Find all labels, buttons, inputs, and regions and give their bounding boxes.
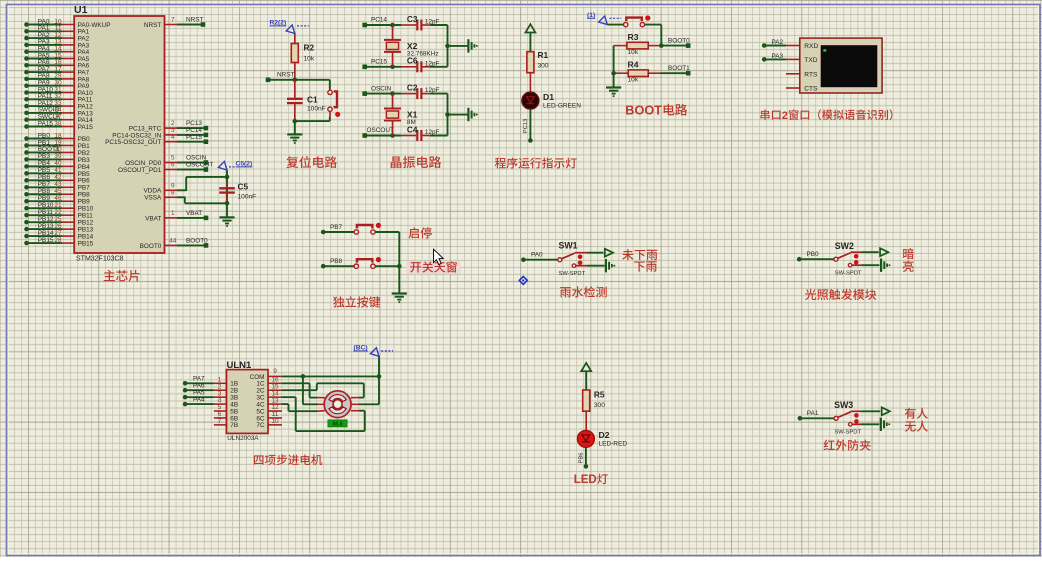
svg-text:X2: X2 — [407, 41, 418, 51]
svg-text:7C: 7C — [256, 422, 265, 429]
svg-text:PB6: PB6 — [38, 174, 51, 181]
svg-text:42: 42 — [54, 174, 62, 181]
svg-text:PA0: PA0 — [531, 251, 543, 258]
svg-text:41: 41 — [54, 167, 62, 174]
svg-text:PC13: PC13 — [523, 119, 529, 134]
svg-text:PB10: PB10 — [78, 206, 94, 213]
svg-text:45: 45 — [54, 188, 62, 195]
svg-text:PC15: PC15 — [371, 59, 387, 66]
svg-text:R4: R4 — [628, 60, 639, 70]
svg-text:PB4: PB4 — [38, 160, 51, 167]
svg-text:28: 28 — [54, 237, 62, 244]
svg-text:ULN2003A: ULN2003A — [227, 435, 259, 442]
svg-text:PB14: PB14 — [38, 230, 54, 237]
svg-text:10k: 10k — [304, 56, 315, 63]
svg-text:PB3: PB3 — [78, 157, 91, 164]
svg-text:NRST: NRST — [277, 72, 294, 79]
svg-text:39: 39 — [54, 153, 62, 160]
svg-text:OSCIN: OSCIN — [186, 155, 207, 162]
svg-text:LED: LED — [574, 474, 597, 486]
svg-text:PC14: PC14 — [371, 17, 387, 24]
svg-text:1: 1 — [171, 210, 175, 217]
svg-text:22: 22 — [54, 209, 62, 216]
svg-text:PB10: PB10 — [38, 202, 54, 209]
svg-text:C3: C3 — [407, 14, 418, 24]
svg-text:PA3: PA3 — [772, 53, 784, 60]
svg-text:SW2: SW2 — [835, 241, 854, 251]
svg-text:OSCOUT: OSCOUT — [186, 162, 213, 169]
svg-text:PB13: PB13 — [38, 223, 54, 230]
svg-text:21: 21 — [54, 202, 62, 209]
svg-text:SW1: SW1 — [559, 241, 578, 251]
svg-text:20: 20 — [54, 146, 62, 153]
svg-text:LED-RED: LED-RED — [599, 441, 628, 448]
svg-text:BOOT1: BOOT1 — [668, 65, 690, 72]
svg-text:100nF: 100nF — [238, 194, 257, 201]
svg-text:NRST: NRST — [186, 17, 203, 24]
svg-text:STM32F103C8: STM32F103C8 — [76, 256, 124, 263]
svg-text:VBAT: VBAT — [145, 215, 161, 222]
svg-text:12pF: 12pF — [425, 87, 440, 94]
svg-text:OSCIN_PD0: OSCIN_PD0 — [125, 160, 162, 167]
svg-text:18: 18 — [54, 132, 62, 139]
svg-text:PB11: PB11 — [38, 209, 54, 216]
svg-text:OSCOUT: OSCOUT — [367, 127, 394, 134]
svg-text:8: 8 — [171, 189, 175, 196]
svg-text:C5: C5 — [238, 182, 249, 192]
svg-text:PA4: PA4 — [193, 396, 205, 403]
svg-text:C2: C2 — [407, 82, 418, 92]
svg-text:PA1: PA1 — [807, 410, 819, 417]
svg-text:7: 7 — [218, 418, 222, 425]
svg-text:PB15: PB15 — [78, 240, 94, 247]
svg-text:6: 6 — [171, 162, 175, 169]
svg-text:27: 27 — [54, 230, 62, 237]
svg-text:12pF: 12pF — [425, 129, 440, 136]
svg-text:7: 7 — [171, 17, 175, 24]
svg-text:CTS: CTS — [804, 86, 818, 93]
svg-text:10: 10 — [271, 418, 279, 425]
svg-text:PB9: PB9 — [78, 199, 91, 206]
svg-text:U1: U1 — [74, 4, 88, 16]
svg-text:SW-SPDT: SW-SPDT — [835, 270, 862, 276]
svg-text:PB8: PB8 — [330, 258, 343, 265]
svg-text:100nF: 100nF — [307, 106, 326, 113]
svg-text:PC15: PC15 — [186, 134, 202, 141]
svg-text:R5: R5 — [594, 390, 605, 400]
svg-text:PB5: PB5 — [78, 171, 91, 178]
svg-text:VSSA: VSSA — [144, 195, 162, 202]
svg-text:NRST: NRST — [144, 22, 161, 29]
svg-text:40: 40 — [54, 160, 62, 167]
svg-text:PB12: PB12 — [38, 216, 54, 223]
svg-text:PB0: PB0 — [38, 132, 51, 139]
svg-text:PB1: PB1 — [78, 143, 91, 150]
svg-text:PB12: PB12 — [78, 220, 94, 227]
svg-text:D2: D2 — [599, 430, 610, 440]
svg-text:4: 4 — [171, 134, 175, 141]
svg-text:VBAT: VBAT — [186, 210, 202, 217]
svg-text:PB15: PB15 — [38, 237, 54, 244]
svg-text:PB4: PB4 — [78, 164, 91, 171]
svg-text:PA15: PA15 — [38, 120, 54, 127]
svg-text:PA2: PA2 — [772, 39, 784, 46]
svg-text:25: 25 — [54, 216, 62, 223]
svg-text:7B: 7B — [230, 422, 238, 429]
svg-text:OSCOUT_PD1: OSCOUT_PD1 — [118, 167, 162, 174]
svg-text:R1: R1 — [538, 50, 549, 60]
svg-text:BOOT: BOOT — [625, 104, 662, 118]
svg-text:PB2: PB2 — [78, 150, 91, 157]
svg-text:D1: D1 — [543, 92, 554, 102]
svg-text:PC15-OSC32_OUT: PC15-OSC32_OUT — [105, 139, 161, 146]
svg-text:PB9: PB9 — [38, 195, 51, 202]
svg-text:PB14: PB14 — [78, 233, 94, 240]
svg-text:PB6: PB6 — [78, 178, 91, 185]
svg-text:SW3: SW3 — [834, 400, 853, 410]
svg-text:9: 9 — [171, 182, 175, 189]
svg-text:PB6: PB6 — [578, 453, 584, 464]
svg-text:PB8: PB8 — [78, 192, 91, 199]
svg-text:X1: X1 — [407, 110, 418, 120]
svg-text:PB0: PB0 — [807, 251, 820, 258]
svg-text:88.8: 88.8 — [332, 422, 343, 428]
svg-text:43: 43 — [54, 181, 62, 188]
svg-text:5: 5 — [171, 155, 175, 162]
svg-text:46: 46 — [54, 195, 62, 202]
svg-text:SW-SPDT: SW-SPDT — [559, 271, 586, 277]
svg-text:12pF: 12pF — [425, 60, 440, 67]
svg-text:PA15: PA15 — [78, 124, 94, 131]
svg-text:26: 26 — [54, 223, 62, 230]
svg-text:300: 300 — [538, 63, 549, 70]
svg-text:PB11: PB11 — [78, 213, 94, 220]
svg-text:12pF: 12pF — [425, 19, 440, 26]
svg-text:PB7: PB7 — [78, 185, 91, 192]
svg-text:300: 300 — [594, 402, 605, 409]
svg-text:TXD: TXD — [804, 57, 817, 64]
svg-text:COM: COM — [250, 374, 265, 381]
svg-text:8M: 8M — [407, 119, 416, 126]
svg-text:R3: R3 — [628, 32, 639, 42]
svg-text:R2: R2 — [304, 43, 315, 53]
svg-text:32.768KHz: 32.768KHz — [407, 51, 439, 58]
svg-text:PB5: PB5 — [38, 167, 51, 174]
svg-text:PB1: PB1 — [38, 139, 51, 146]
svg-text:RXD: RXD — [804, 43, 818, 50]
svg-text:PB7: PB7 — [330, 224, 343, 231]
svg-text:PB3: PB3 — [38, 153, 51, 160]
svg-text:PB0: PB0 — [78, 136, 91, 143]
svg-text:C1: C1 — [307, 95, 318, 105]
svg-text:10k: 10k — [628, 77, 639, 84]
svg-text:38: 38 — [54, 120, 62, 127]
svg-text:VDDA: VDDA — [144, 188, 162, 195]
svg-text:10k: 10k — [628, 49, 639, 56]
svg-text:SW-SPDT: SW-SPDT — [834, 429, 861, 435]
svg-text:PB13: PB13 — [78, 227, 94, 234]
svg-text:RTS: RTS — [804, 71, 818, 78]
svg-text:PB8: PB8 — [38, 188, 51, 195]
svg-text:PB7: PB7 — [38, 181, 51, 188]
svg-text:2: 2 — [782, 110, 788, 122]
svg-text:9: 9 — [273, 368, 277, 375]
svg-text:OSCIN: OSCIN — [371, 85, 392, 92]
svg-text:BOOT0: BOOT0 — [140, 243, 162, 250]
svg-text:BOOT0: BOOT0 — [186, 238, 208, 245]
svg-text:BOOT0: BOOT0 — [668, 37, 690, 44]
svg-text:19: 19 — [54, 139, 62, 146]
svg-text:LED-GREEN: LED-GREEN — [543, 103, 581, 110]
svg-text:44: 44 — [169, 238, 177, 245]
